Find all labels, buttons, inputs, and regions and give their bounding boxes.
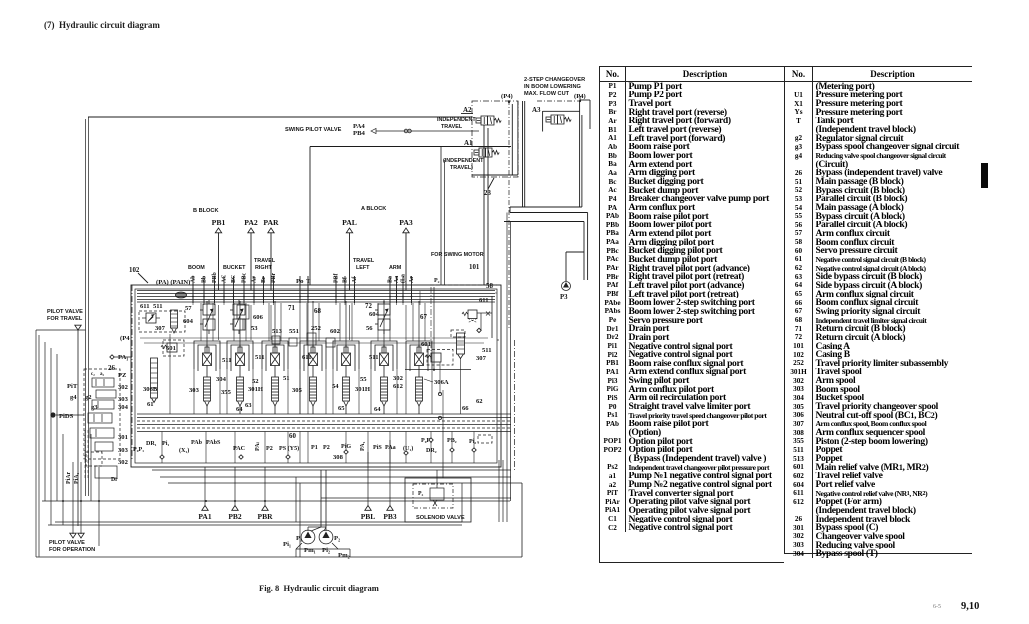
svg-text:P₂: P₂ — [334, 535, 340, 542]
node PiDS — [50, 412, 55, 417]
valve 601 MR1 — [163, 340, 184, 356]
svg-text:PiA₁: PiA₁ — [74, 473, 80, 484]
wire bus port ticks — [192, 291, 194, 305]
wire swing section divider — [430, 287, 432, 360]
svg-text:P1: P1 — [311, 445, 318, 451]
svg-text:P₂: P₂ — [418, 491, 424, 497]
wire drop x441 — [440, 147, 442, 286]
svg-text:511: 511 — [153, 303, 163, 310]
svg-text:P₀P₁: P₀P₁ — [133, 447, 144, 453]
svg-text:612: 612 — [393, 383, 404, 390]
valve 303b travel — [95, 442, 113, 451]
valve 601 left — [237, 305, 249, 319]
svg-text:AC: AC — [222, 274, 228, 283]
wire port stub — [203, 276, 205, 303]
svg-text:307: 307 — [476, 355, 487, 362]
wire bus bottom group — [137, 413, 511, 415]
wire spool stub — [312, 303, 314, 347]
wire label-row verticals — [161, 432, 163, 464]
valve 551 — [289, 338, 297, 346]
wire port drop — [234, 467, 236, 506]
wire port stub — [411, 276, 413, 303]
svg-text:67: 67 — [420, 314, 427, 321]
svg-text:SWING PILOT VALVE: SWING PILOT VALVE — [285, 127, 342, 133]
wire right horizontals — [497, 339, 499, 341]
wire port stub — [396, 276, 398, 303]
wire port stub — [354, 276, 356, 303]
svg-text:301H: 301H — [355, 386, 371, 393]
wire port stub — [192, 276, 194, 303]
wire leader 23 — [488, 178, 494, 189]
valve 307 bracket dashed — [451, 330, 465, 337]
svg-text:302: 302 — [393, 375, 404, 382]
wire drop x310 — [309, 147, 311, 286]
svg-text:P2: P2 — [323, 445, 330, 451]
svg-text:Bf: Bf — [343, 276, 349, 283]
wire A-block corner drop — [433, 287, 435, 370]
svg-text:304: 304 — [216, 376, 227, 383]
svg-text:PB4: PB4 — [353, 130, 366, 137]
wire dash-dot casing line — [131, 285, 133, 460]
svg-text:Pi₁: Pi₁ — [162, 441, 169, 447]
svg-text:72: 72 — [365, 303, 372, 310]
port PA1 left — [110, 355, 114, 359]
svg-text:604: 604 — [369, 311, 380, 318]
svg-text:306A: 306A — [434, 379, 449, 386]
wire dash top right — [430, 284, 497, 286]
svg-text:51: 51 — [283, 375, 290, 382]
wire spool parallels — [233, 303, 235, 341]
svg-text:26: 26 — [108, 365, 115, 372]
svg-text:DR₂: DR₂ — [426, 448, 437, 454]
wire spool stub — [418, 303, 420, 347]
wire top bus A — [88, 116, 472, 118]
spool 302 — [406, 341, 432, 414]
wire top right corner — [580, 99, 590, 101]
wire port drop — [405, 233, 407, 290]
wire bottom routing — [299, 483, 301, 557]
valve group 2 — [88, 413, 112, 423]
valve A1 independent travel — [474, 148, 499, 157]
svg-text:68: 68 — [314, 308, 321, 315]
wire port stub — [253, 276, 255, 303]
wire swing pilot line — [371, 128, 376, 133]
svg-text:Ab: Ab — [191, 275, 197, 283]
svg-text:ARM: ARM — [389, 265, 402, 271]
valve 601 MR2 — [431, 353, 441, 362]
svg-text:g3: g3 — [91, 404, 98, 411]
svg-text:FOR TRAVEL: FOR TRAVEL — [47, 316, 83, 322]
svg-text:PAbS: PAbS — [206, 440, 221, 446]
wire to P3 — [565, 280, 567, 281]
svg-text:61: 61 — [147, 401, 154, 408]
svg-text:355: 355 — [221, 389, 232, 396]
svg-text:INDEPENDENT: INDEPENDENT — [437, 117, 476, 123]
wire port drop — [270, 233, 272, 290]
wire port drop — [218, 233, 220, 290]
wire dashed pair — [84, 430, 86, 480]
svg-text:606: 606 — [253, 314, 264, 321]
pump P1 — [301, 530, 315, 544]
valve 2-step changeover — [546, 115, 571, 124]
valve 303 travel — [96, 390, 116, 398]
wire port stub — [335, 276, 337, 303]
node small ellipse — [176, 292, 187, 298]
svg-text:PiT: PiT — [67, 383, 78, 390]
wire block right connect — [495, 292, 497, 294]
pilot valve group box — [84, 369, 120, 459]
svg-text:A1: A1 — [464, 139, 473, 147]
valve block casing 102 — [131, 285, 501, 467]
wire spool stub — [239, 303, 241, 347]
spool 304 — [227, 341, 253, 414]
wire port drop — [389, 440, 391, 506]
svg-text:RIGHT: RIGHT — [255, 265, 272, 271]
valve 611 NR1 — [146, 313, 156, 323]
svg-text:308: 308 — [333, 454, 344, 461]
svg-text:TRAVEL: TRAVEL — [441, 124, 463, 130]
svg-text:MAX. FLOW CUT: MAX. FLOW CUT — [524, 91, 570, 97]
wire port stub — [243, 276, 245, 303]
svg-text:303: 303 — [189, 387, 200, 394]
junction connector — [404, 129, 408, 133]
svg-text:PILOT VALVE: PILOT VALVE — [49, 540, 85, 546]
svg-text:BOOM: BOOM — [188, 265, 205, 271]
svg-text:54: 54 — [332, 383, 339, 390]
svg-text:a₂: a₂ — [100, 372, 105, 377]
wire operation drops — [72, 462, 74, 534]
svg-text:2-STEP CHANGEOVER: 2-STEP CHANGEOVER — [524, 77, 585, 83]
wire left connect — [35, 330, 37, 557]
port PB3 — [387, 506, 393, 511]
wire port stub — [402, 276, 404, 303]
wire solenoid feed — [436, 470, 438, 488]
svg-text:23: 23 — [484, 190, 491, 197]
svg-text:PBL: PBL — [361, 512, 376, 521]
wire line B to A1 — [310, 146, 511, 148]
svg-text:71: 71 — [288, 305, 295, 312]
svg-text:PA₁: PA₁ — [360, 441, 366, 451]
wire spool stub — [206, 303, 208, 347]
wire port drop — [250, 233, 252, 290]
svg-text:T: T — [306, 278, 311, 285]
svg-text:A BLOCK: A BLOCK — [361, 206, 386, 212]
svg-text:305: 305 — [292, 387, 303, 394]
wire y369 line — [405, 369, 471, 371]
svg-text:Pm₁: Pm₁ — [304, 547, 316, 554]
spool 307 right — [457, 333, 465, 354]
svg-text:P₁: P₁ — [296, 535, 302, 542]
svg-text:611: 611 — [302, 354, 312, 361]
svg-text:PBr: PBr — [271, 272, 277, 283]
leader 306A — [424, 379, 433, 382]
wire port drop — [367, 452, 369, 506]
wire port stub — [223, 276, 225, 303]
wire port stub — [214, 276, 216, 303]
wire spool parallels — [268, 303, 270, 341]
svg-text:Af: Af — [352, 276, 358, 283]
svg-text:56: 56 — [366, 325, 373, 332]
wire spool parallels — [412, 303, 414, 341]
svg-text:60: 60 — [289, 433, 296, 440]
svg-text:PB1: PB1 — [212, 218, 226, 227]
svg-text:FOR SWING MOTOR: FOR SWING MOTOR — [431, 252, 484, 258]
svg-text:55: 55 — [360, 376, 367, 383]
svg-text:A2: A2 — [463, 106, 472, 114]
spool 54 — [333, 341, 359, 414]
spool 51 — [300, 341, 326, 414]
wire port stub — [273, 276, 275, 303]
svg-text:BUCKET: BUCKET — [223, 265, 246, 271]
svg-text:511: 511 — [482, 347, 492, 354]
svg-text:PBb: PBb — [212, 271, 218, 283]
wire spool stub — [274, 303, 276, 347]
svg-text:302: 302 — [118, 384, 129, 391]
wire 63 drop — [62, 434, 64, 525]
port PBL — [365, 506, 371, 511]
valve 301 travel — [90, 428, 114, 438]
svg-text:P₂: P₂ — [434, 278, 440, 284]
svg-text:g4: g4 — [70, 394, 77, 401]
wire bottom horizontals — [510, 206, 582, 208]
wire parallel feed lines — [140, 337, 488, 339]
valve 606 — [230, 300, 245, 334]
svg-text:PZ: PZ — [118, 372, 127, 379]
svg-text:Pm₂: Pm₂ — [338, 552, 350, 559]
svg-text:Ar: Ar — [409, 276, 415, 283]
svg-text:PiAr: PiAr — [66, 472, 72, 484]
svg-text:FOR OPERATION: FOR OPERATION — [49, 547, 95, 553]
wire port stub — [233, 276, 235, 303]
valve 604 — [200, 300, 215, 334]
svg-text:TRAVEL: TRAVEL — [254, 258, 276, 264]
wire port stub — [389, 276, 391, 303]
svg-text:BC: BC — [231, 275, 237, 283]
wire (P4) right dash-dot — [537, 100, 580, 102]
svg-text:(U₁): (U₁) — [403, 445, 413, 452]
wire (P4) dash-dot drop — [508, 100, 510, 330]
svg-text:PB2: PB2 — [228, 512, 242, 521]
wire spool parallels — [200, 303, 202, 341]
wire dashdot right casing — [514, 340, 516, 470]
svg-text:PBf: PBf — [334, 272, 340, 283]
valve 611 NR2 right — [468, 310, 477, 319]
junction diamond 611 — [477, 328, 481, 332]
svg-text:PA3: PA3 — [399, 218, 413, 227]
spool 55 — [371, 341, 397, 414]
wire frame left pair — [511, 104, 513, 175]
svg-text:Ba: Ba — [388, 276, 394, 283]
svg-text:PiS: PiS — [373, 445, 382, 451]
svg-text:602: 602 — [330, 328, 341, 335]
svg-text:PAa: PAa — [385, 445, 396, 451]
svg-text:Bb: Bb — [202, 275, 208, 283]
valve 304 travel — [92, 400, 114, 409]
svg-text:307: 307 — [155, 325, 166, 332]
svg-text:302: 302 — [118, 459, 129, 466]
spool 52 — [262, 341, 288, 414]
port operation a — [70, 533, 76, 538]
svg-text:LEFT: LEFT — [356, 265, 370, 271]
wire spool stub — [345, 303, 347, 347]
svg-text:64: 64 — [374, 406, 381, 413]
svg-text:303: 303 — [118, 396, 129, 403]
wire A2 drop — [483, 125, 485, 285]
port PB2 — [232, 506, 238, 511]
svg-text:TRAVEL): TRAVEL) — [450, 165, 473, 171]
svg-text:PAL: PAL — [342, 218, 357, 227]
valve block casing inner — [135, 289, 497, 463]
wire port drop — [264, 467, 266, 506]
svg-text:A3: A3 — [532, 106, 541, 114]
valve 302b travel — [86, 452, 102, 466]
svg-text:101: 101 — [469, 264, 480, 271]
valve solenoid — [430, 488, 444, 500]
svg-text:63: 63 — [245, 402, 252, 409]
svg-text:PBR: PBR — [258, 512, 274, 521]
svg-text:611: 611 — [479, 297, 489, 304]
wire port stub — [263, 276, 265, 303]
wire port drop — [349, 233, 351, 290]
svg-text:P2: P2 — [266, 446, 273, 452]
wire port stub — [344, 276, 346, 303]
wire lower routing lines — [152, 469, 511, 471]
wire left risers — [38, 335, 40, 557]
valve A2 independent travel — [476, 116, 501, 125]
svg-text:PiDS: PiDS — [59, 413, 74, 420]
port PBR — [262, 506, 268, 511]
svg-text:301: 301 — [118, 434, 128, 441]
svg-text:B BLOCK: B BLOCK — [193, 208, 218, 214]
wire frame bottom left — [472, 174, 518, 176]
port pilot travel — [75, 325, 81, 330]
svg-text:601: 601 — [421, 341, 431, 348]
valve 252 — [307, 333, 316, 345]
wire spool stub — [383, 303, 385, 347]
svg-text:PA2: PA2 — [244, 218, 258, 227]
svg-text:Dr: Dr — [111, 477, 118, 483]
svg-text:g2: g2 — [85, 394, 92, 401]
valve 302 travel — [92, 378, 114, 387]
svg-text:511: 511 — [255, 354, 265, 361]
junction diamonds bottom — [160, 455, 164, 459]
svg-text:66: 66 — [462, 405, 469, 412]
wire interior verticals — [218, 305, 220, 340]
svg-text:PB3: PB3 — [383, 512, 397, 521]
svg-text:Aa: Aa — [394, 276, 400, 283]
svg-text:551: 551 — [289, 328, 299, 335]
svg-text:57: 57 — [185, 305, 192, 312]
svg-text:62: 62 — [476, 398, 483, 405]
solenoid valve dashed — [413, 484, 453, 508]
svg-text:64: 64 — [236, 406, 243, 413]
wire 611 loop — [477, 312, 492, 314]
svg-text:511: 511 — [222, 357, 232, 364]
svg-text:Ar: Ar — [252, 276, 258, 283]
svg-text:PS (Y5): PS (Y5) — [279, 445, 299, 452]
svg-text:PBc: PBc — [242, 272, 248, 283]
svg-text:PILOT VALVE: PILOT VALVE — [47, 309, 83, 315]
svg-text:306B: 306B — [143, 386, 158, 393]
wire pids — [56, 414, 84, 416]
svg-text:Pi₂: Pi₂ — [469, 439, 476, 445]
port PA1 — [202, 506, 208, 511]
svg-text:604: 604 — [183, 318, 194, 325]
wire spool parallels — [306, 303, 308, 341]
svg-text:TRAVEL: TRAVEL — [353, 258, 375, 264]
wire left horizontals — [42, 500, 510, 502]
svg-text:65: 65 — [338, 405, 345, 412]
valve Dr travel — [95, 466, 117, 478]
solenoid valve box — [405, 478, 471, 522]
spool 303 — [194, 341, 220, 414]
svg-text:PAR: PAR — [263, 218, 279, 227]
svg-text:Pi₁: Pi₁ — [283, 541, 291, 548]
svg-text:PA₁: PA₁ — [118, 354, 128, 361]
svg-text:304: 304 — [118, 404, 129, 411]
wire corner 58 — [405, 295, 492, 297]
wire left drop — [88, 117, 90, 496]
wire right frame verticals — [522, 101, 524, 207]
svg-text:611: 611 — [140, 303, 150, 310]
valve 604 A — [375, 300, 390, 334]
svg-text:(P4): (P4) — [501, 93, 513, 100]
valve 308 seq — [478, 435, 492, 443]
pump P3 — [562, 282, 571, 291]
svg-text:511: 511 — [369, 354, 379, 361]
svg-text:c₂: c₂ — [91, 372, 95, 377]
box independent travel (23) — [472, 101, 518, 177]
svg-text:513: 513 — [272, 328, 283, 335]
wire stub Po — [299, 276, 301, 303]
port operation b — [78, 533, 84, 538]
wire pa1 — [114, 356, 132, 358]
svg-text:DR₁: DR₁ — [146, 441, 157, 447]
svg-text:52: 52 — [252, 378, 259, 385]
wire spool parallels — [377, 303, 379, 341]
svg-text:Br: Br — [261, 276, 267, 283]
spool 307 conflux — [171, 310, 178, 328]
wire A3 frame — [542, 111, 544, 132]
svg-text:(X₁): (X₁) — [179, 447, 189, 454]
valve 601 dashed box left — [139, 311, 185, 332]
junction circles right — [438, 392, 441, 395]
pump P2 — [319, 530, 333, 544]
valve 602 — [326, 338, 335, 347]
svg-text:Pi₂: Pi₂ — [322, 547, 330, 554]
svg-text:(P4: (P4 — [120, 335, 130, 342]
wire pump columns — [320, 470, 322, 527]
wire spool parallels — [339, 303, 341, 341]
svg-text:252: 252 — [311, 325, 322, 332]
wire right risers — [498, 460, 500, 522]
wire port drop — [204, 467, 206, 506]
box 601 dashed — [427, 350, 453, 366]
svg-text:303: 303 — [118, 447, 129, 454]
junction dots bottom bus — [62, 500, 64, 502]
svg-text:53: 53 — [251, 325, 258, 332]
svg-text:P3: P3 — [560, 294, 568, 301]
svg-text:(INDEPENDENT: (INDEPENDENT — [443, 158, 484, 164]
svg-text:601: 601 — [166, 345, 176, 352]
spool 306B — [151, 358, 158, 398]
svg-text:PA4: PA4 — [353, 123, 365, 130]
junction dots bus — [192, 296, 194, 298]
wire pump links — [307, 527, 309, 531]
svg-text:IN BOOM LOWERING: IN BOOM LOWERING — [524, 84, 581, 90]
valve 513 — [272, 336, 280, 344]
svg-text:PA1: PA1 — [198, 512, 211, 521]
